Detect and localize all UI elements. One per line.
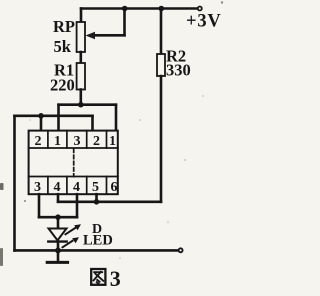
label RP	[53, 17, 75, 36]
wire wiper vertical from rail	[123, 9, 126, 36]
node dot rail-R2	[159, 6, 165, 12]
svg-text:330: 330	[166, 61, 191, 80]
svg-text:4: 4	[54, 180, 61, 195]
svg-text:+3V: +3V	[186, 12, 222, 32]
terminal +3V	[198, 7, 202, 11]
scan speck 8	[167, 221, 169, 223]
svg-text:5k: 5k	[54, 37, 72, 56]
scan speck 2	[139, 119, 141, 121]
wire A horizontal	[59, 103, 117, 106]
pin label bottom 5	[92, 180, 99, 195]
wire R1 bottom to node	[80, 90, 83, 105]
node dot wireB-pin2	[38, 113, 44, 119]
svg-text:3: 3	[74, 134, 81, 149]
scan speck 1	[24, 200, 26, 202]
battery negative bar	[47, 261, 67, 264]
wire rail to R2 top	[160, 9, 163, 55]
pin label bottom 3	[34, 180, 41, 195]
label +3V	[186, 12, 222, 32]
LED light arrow 2	[63, 237, 80, 247]
scan speck 5	[221, 1, 223, 3]
wire D horizontal	[39, 216, 77, 219]
pin label bottom 4b	[73, 180, 80, 195]
scan speck 6	[119, 257, 121, 259]
pin label top 3	[74, 134, 81, 149]
label 220	[50, 76, 75, 95]
svg-text:2: 2	[93, 134, 100, 149]
caption 图 glyph	[91, 269, 105, 285]
potentiometer RP body	[77, 22, 85, 52]
svg-text:LED: LED	[83, 233, 113, 249]
IC bottom row top line	[29, 176, 118, 178]
svg-text:2: 2	[35, 134, 42, 149]
LED light arrow 1	[66, 224, 82, 234]
node dot wireD-LED	[55, 214, 61, 220]
pin label top 1b	[109, 134, 116, 149]
IC U1 outer box	[29, 131, 118, 195]
label 330	[166, 61, 191, 80]
pin label bottom 6	[111, 180, 118, 195]
scan smudge left edge 2	[0, 248, 3, 266]
scan speck 4	[184, 159, 186, 161]
wire RP bottom to R1 top	[80, 52, 83, 63]
pin label top 2	[35, 134, 42, 149]
wire E bottom rail	[15, 249, 178, 252]
LED cathode bar	[48, 240, 66, 242]
wire pin5 bottom drop	[95, 194, 98, 202]
wire A right drop to pin1'(top)	[115, 105, 118, 131]
svg-text:6: 6	[111, 180, 118, 195]
wire left side down	[13, 116, 16, 251]
scan smudge left edge 1	[0, 183, 4, 190]
label D	[92, 222, 102, 237]
caption 3	[110, 266, 121, 291]
resistor R1 body	[77, 63, 85, 90]
pin label top 2b	[93, 134, 100, 149]
wire C horizontal	[58, 201, 161, 204]
node dot wireC-pin5	[94, 199, 100, 205]
terminal bottom	[179, 248, 183, 252]
wire wiper horizontal	[92, 34, 125, 37]
node dot rail-wiper	[122, 6, 128, 12]
scan speck 7	[29, 119, 31, 121]
IC center dashed divider	[73, 149, 75, 177]
IC top row bottom line	[29, 147, 118, 149]
svg-text:1: 1	[109, 134, 116, 149]
wire pin4 bottom drop	[57, 194, 60, 202]
label R2	[166, 47, 186, 66]
wire B horizontal	[15, 115, 93, 118]
wiper arrowhead into RP	[86, 32, 96, 40]
scan speck 3	[202, 95, 204, 97]
wire R2 bottom down	[160, 76, 163, 202]
wire LED cathode down	[57, 242, 60, 263]
svg-text:4: 4	[73, 180, 80, 195]
IC bottom row separators	[48, 177, 107, 195]
svg-text:1: 1	[54, 134, 61, 149]
pin label top 1	[54, 134, 61, 149]
svg-text:RP: RP	[53, 17, 75, 36]
wire pin4b bottom drop to wire D	[76, 194, 79, 217]
LED D triangle	[49, 229, 67, 241]
wire A left drop to pin1(top2)	[57, 105, 60, 131]
wire rail to RP top	[80, 9, 83, 23]
svg-text:3: 3	[34, 180, 41, 195]
wire LED anode	[57, 217, 60, 228]
node dot R1-wireA	[78, 102, 84, 108]
wire +3V top rail	[81, 7, 198, 10]
label LED	[83, 233, 113, 249]
label 5k	[54, 37, 72, 56]
wire B right drop to pin2'(top)	[91, 116, 94, 131]
IC top row separators	[48, 131, 107, 148]
wire B drop to pin2(top)	[40, 116, 43, 131]
resistor R2 body	[157, 54, 165, 76]
pin label bottom 4	[54, 180, 61, 195]
svg-text:5: 5	[92, 180, 99, 195]
wire pin3 bottom drop	[38, 194, 41, 217]
svg-text:220: 220	[50, 76, 75, 95]
node dot cathode-wireE	[55, 248, 61, 254]
label R1	[54, 61, 74, 80]
svg-text:3: 3	[110, 266, 121, 291]
